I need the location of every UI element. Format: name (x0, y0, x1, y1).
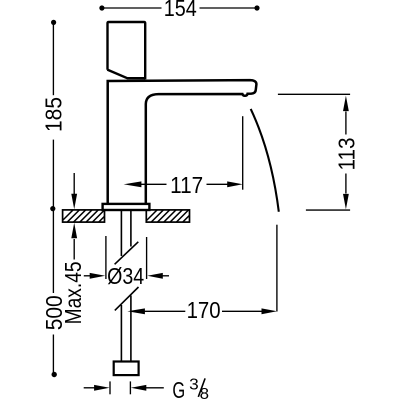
svg-text:117: 117 (170, 172, 203, 198)
dimension diameter 34 arrows (84, 275, 169, 277)
svg-text:Ø34: Ø34 (107, 263, 144, 289)
countertop left section (hatched) (58, 208, 119, 225)
faucet body and spout (108, 80, 257, 203)
dimension diameter 34 extension lines (106, 236, 147, 279)
svg-text:3: 3 (189, 377, 199, 394)
svg-text:Max.45: Max.45 (60, 261, 86, 324)
water stream (251, 109, 279, 212)
svg-text:G: G (172, 377, 185, 400)
dimension 117 line (141, 183, 229, 185)
connector nut (114, 362, 139, 376)
base flange (103, 204, 150, 210)
svg-text:113: 113 (334, 138, 360, 171)
dimension 113 line (345, 112, 347, 194)
outlet extension line (242, 116, 244, 190)
dimension 113 extension lines (278, 94, 350, 210)
svg-text:170: 170 (187, 297, 221, 323)
dimension G 3/8 label (172, 377, 209, 400)
faucet handle (107, 22, 145, 79)
svg-text:154: 154 (164, 0, 197, 21)
dimension 185 line (52, 22, 54, 208)
dimension 154 line (102, 7, 257, 9)
dimension 170 line (145, 310, 264, 312)
supply pipe lower segment (121, 296, 130, 362)
dimension 500 line (52, 209, 54, 375)
pipe break slash upper (115, 242, 139, 264)
pipe break slash lower (115, 287, 139, 310)
supply pipe upper segment (121, 210, 130, 256)
stream extension line (276, 225, 278, 312)
dimension G 3/8 arrows and ticks (84, 381, 164, 394)
svg-text:185: 185 (41, 97, 67, 132)
countertop right section (hatched) (142, 208, 203, 225)
dimension Max.45 arrows (73, 173, 75, 260)
